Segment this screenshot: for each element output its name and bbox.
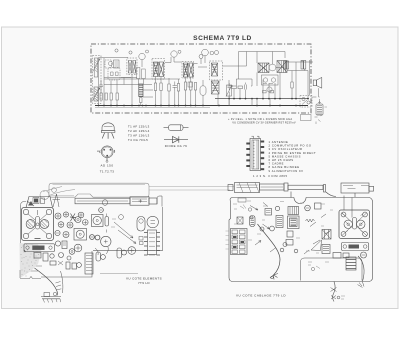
resistor R9 <box>177 84 179 92</box>
CV top housing <box>341 183 369 193</box>
dial plate right <box>342 243 369 251</box>
rect pair top <box>265 209 272 216</box>
battery lead swoop <box>35 268 58 296</box>
connector pins right <box>261 141 265 171</box>
electrolytic round <box>128 247 136 255</box>
chassis notch <box>294 198 306 204</box>
connector screws <box>252 136 260 138</box>
connector pins left <box>246 143 250 168</box>
capsule small <box>96 252 101 261</box>
speaker cutout <box>301 258 363 281</box>
ergot mark <box>97 151 99 153</box>
dark vertical block <box>276 216 283 228</box>
detector cluster <box>228 83 232 91</box>
front apron parts <box>28 266 42 271</box>
output transformer in cutout <box>346 257 356 270</box>
CV label <box>35 238 41 240</box>
tuning capacitor CV body <box>22 208 54 241</box>
crystal capsule <box>105 217 109 227</box>
resistor capsule <box>164 127 169 129</box>
capacitor C1 trimmer <box>99 80 103 94</box>
svg-text:T1.T2.T3: T1.T2.T3 <box>100 169 115 173</box>
chassis outline right/bottom <box>41 207 163 277</box>
dial pointer <box>53 194 59 207</box>
FI2 secondary <box>189 63 193 77</box>
resistor pair R15 R16 <box>284 61 286 69</box>
pointer X star <box>70 214 76 222</box>
resistor R3 <box>110 93 112 100</box>
capacitor C6 <box>173 82 178 92</box>
resistor R2 <box>105 93 107 100</box>
thermistor circle <box>267 87 272 92</box>
svg-text:1 2 3 N. 3 DIM 2865: 1 2 3 N. 3 DIM 2865 <box>253 174 288 178</box>
T1 base mark <box>111 72 119 76</box>
resistor R11 <box>190 82 192 90</box>
electrolytic can <box>101 236 111 246</box>
svg-text:4 PRISE BF ENTRE DIRECT: 4 PRISE BF ENTRE DIRECT <box>269 151 317 155</box>
small circle <box>250 216 253 219</box>
detector transformer secondary <box>212 81 220 94</box>
transistor T1 <box>108 68 120 81</box>
electrolytic C7 <box>200 86 206 96</box>
CV center shaft <box>36 217 40 230</box>
transistor T2 circle <box>171 51 177 57</box>
pointer arrows <box>250 203 330 255</box>
bar coil block <box>130 197 149 205</box>
battery label <box>325 106 328 108</box>
small parts front row <box>34 253 41 259</box>
resistor R10 <box>184 82 186 90</box>
capacitor C4 <box>137 68 140 79</box>
dial lamp trapezoid <box>26 197 53 208</box>
CV feed lines <box>344 196 352 218</box>
svg-text:T3 AF 126/L3: T3 AF 126/L3 <box>128 134 150 138</box>
speaker stipple zone <box>20 243 42 279</box>
dangling wire <box>333 282 336 302</box>
antenna coil L1 dashed box <box>93 56 102 104</box>
antenna coil L1 <box>93 58 100 77</box>
resistor R6 <box>154 83 156 91</box>
dial pulley <box>40 191 49 200</box>
CV corner screws <box>23 209 28 214</box>
resistor R5 <box>140 98 142 103</box>
FI1 primary <box>154 62 159 77</box>
wire <box>111 81 117 106</box>
swoop connector fan <box>270 274 278 280</box>
svg-text:SCHEMA 7T9 LD: SCHEMA 7T9 LD <box>193 35 252 42</box>
resistor caps row <box>55 241 60 246</box>
dial cord <box>43 187 75 196</box>
svg-text:T2 AF 125/L4: T2 AF 125/L4 <box>128 129 150 133</box>
wire <box>196 67 208 106</box>
junction dots <box>98 98 309 107</box>
wire <box>169 78 179 106</box>
transistor T3 circle <box>202 49 209 56</box>
svg-text:T4 OA 70/L5: T4 OA 70/L5 <box>128 138 148 142</box>
ground bus <box>95 105 308 107</box>
battery clip <box>41 297 61 299</box>
transistor T1 block <box>105 60 112 68</box>
bar thin section <box>288 185 323 189</box>
dark X square <box>322 230 331 240</box>
label circle <box>129 51 132 54</box>
wire <box>218 66 247 106</box>
CV diagonals <box>28 214 48 235</box>
svg-text:2 COMMUTATEUR PO GO: 2 COMMUTATEUR PO GO <box>269 144 312 148</box>
wire bus drops <box>229 99 270 106</box>
svg-text:1 ANTENNE: 1 ANTENNE <box>269 140 289 144</box>
front misc line <box>100 273 138 275</box>
wire <box>99 58 132 78</box>
trimmer circles <box>55 213 61 219</box>
bar divider <box>284 183 288 191</box>
resistor zigzag <box>306 219 315 222</box>
IF transformer FI3 dashed <box>210 61 223 80</box>
oscillator coil windings <box>129 61 136 74</box>
comp <box>315 203 322 209</box>
IF transformer can 1 <box>92 215 104 227</box>
resistor R14 <box>238 86 243 89</box>
wire <box>156 57 183 106</box>
CV rotor left <box>26 219 35 228</box>
right ferrite bar <box>260 184 285 190</box>
svg-text:7 CADRE: 7 CADRE <box>269 162 285 166</box>
supply rail <box>215 98 308 100</box>
speaker HP <box>313 77 322 88</box>
FI1 secondary <box>159 62 164 77</box>
battery terminal <box>318 99 321 104</box>
CV shaft <box>353 218 357 230</box>
volume potentiometer P1 <box>227 85 232 96</box>
transistor T4 circle <box>269 64 276 71</box>
resistor R8 <box>168 84 170 91</box>
small circles mid <box>260 227 264 231</box>
CV rotors <box>344 220 352 228</box>
chassis top mark <box>238 198 246 202</box>
bus second line <box>95 106 210 108</box>
output transformer legged <box>148 230 157 255</box>
terminal board <box>231 229 248 255</box>
pointer arrows <box>114 222 136 244</box>
connector legend <box>253 140 316 178</box>
svg-text:8 GAINE BLINDEE: 8 GAINE BLINDEE <box>269 165 300 169</box>
oscillator coil L3 <box>139 84 143 97</box>
hp wire right <box>358 256 364 282</box>
bar tick <box>324 185 326 193</box>
svg-text:+ 9V CELL. 1 NOTE OR L DIVERS: + 9V CELL. 1 NOTE OR L DIVERS MOD AGA <box>228 117 292 121</box>
svg-text:5 MASSE CHASSIS: 5 MASSE CHASSIS <box>269 154 301 158</box>
cable ties <box>56 282 62 291</box>
wire <box>141 90 153 106</box>
resistor R1 <box>100 93 102 100</box>
wire left feed <box>99 58 105 106</box>
bar end cap <box>149 198 157 204</box>
electrolytic capsule <box>137 217 145 232</box>
rects mid <box>287 231 293 237</box>
diode D1 <box>164 139 188 141</box>
battery wire swoop right view <box>258 224 281 275</box>
connector strip body <box>250 139 261 171</box>
bar right cap <box>369 186 374 191</box>
FI2 primary <box>184 63 188 77</box>
pin stubs <box>100 150 115 160</box>
resistor R13 <box>232 86 237 89</box>
transistor legs <box>102 133 114 139</box>
push-pull transistors <box>262 75 279 85</box>
tuning capacitor CV mirror <box>339 210 370 239</box>
wire <box>132 60 144 106</box>
bias network <box>263 91 267 93</box>
dark block lower <box>322 245 330 254</box>
svg-text:AD 150: AD 150 <box>100 164 113 168</box>
transistor T1 circle <box>139 53 145 59</box>
ferrite rod bar <box>75 198 130 204</box>
transistor list <box>128 125 150 143</box>
cutout small bits <box>308 262 329 269</box>
wire speaker to battery <box>310 60 320 97</box>
capacitor C2 block <box>114 60 120 68</box>
electrolytic dark capsule <box>250 216 256 227</box>
wire <box>186 56 206 106</box>
svg-text:VU CONDENSER CV 3V GERNIER RST: VU CONDENSER CV 3V GERNIER RST R237mV <box>232 121 296 125</box>
small bits column <box>139 237 143 241</box>
driver transformer tall <box>85 253 93 274</box>
transistor case top view <box>102 123 114 131</box>
wire top feed <box>239 52 286 80</box>
dark trimmers <box>90 235 95 240</box>
resistor R12 <box>194 83 196 91</box>
wire to speaker <box>287 61 313 99</box>
chassis rear rail <box>49 183 149 197</box>
rail end circle <box>52 188 57 193</box>
svg-text:VU COTE ELEMENTS: VU COTE ELEMENTS <box>126 277 162 281</box>
transistor case bottom view <box>101 146 113 158</box>
capacitor C5 <box>142 69 146 79</box>
svg-text:VU COTE CABLAGE 7T9 LD: VU COTE CABLAGE 7T9 LD <box>236 294 286 298</box>
right chassis outline <box>229 198 373 282</box>
resistor pair R17 R18 <box>301 61 303 70</box>
transistor label circle <box>115 49 118 52</box>
svg-text:DIODE OA 79: DIODE OA 79 <box>165 144 187 148</box>
svg-text:3 CV OSCILLATEUR: 3 CV OSCILLATEUR <box>269 147 303 151</box>
bar coil block <box>235 183 260 193</box>
FI3 winding <box>212 63 218 76</box>
resistor R4 <box>116 93 118 100</box>
wire <box>229 52 252 99</box>
triangle pointer <box>311 240 322 251</box>
tiny ref labels <box>234 201 333 253</box>
pin dots <box>103 149 111 157</box>
small rect pair <box>237 217 243 224</box>
chassis outline top segments <box>25 200 61 202</box>
resistor R19 <box>291 82 293 88</box>
filter circle <box>147 216 158 227</box>
IF transformer FI1 dashed <box>152 59 165 80</box>
wire bits <box>95 247 108 255</box>
IF transformer FI2 dashed <box>182 62 194 79</box>
capacitor C8 <box>245 83 247 92</box>
oscillator block OSC dashed <box>127 58 137 75</box>
diode circle <box>199 55 203 59</box>
IF transformer can 2 <box>74 229 87 241</box>
battery B1 <box>316 104 323 115</box>
bar mount <box>291 192 355 198</box>
svg-text:T1 AF 125/L3: T1 AF 125/L3 <box>128 125 150 129</box>
output transformer TR2 <box>277 61 287 73</box>
battery plug outline <box>301 115 324 125</box>
dial pointer dark <box>28 201 34 206</box>
chassis outline left <box>21 202 25 251</box>
wire <box>251 68 284 99</box>
driver transformer TR1 <box>258 63 269 73</box>
svg-text:6 HP 25 OHMS: 6 HP 25 OHMS <box>269 158 294 162</box>
transformer dark core <box>288 216 300 229</box>
svg-text:7T9 LD: 7T9 LD <box>138 281 150 285</box>
switch dashed box <box>300 96 312 108</box>
CV rotor right <box>40 219 49 228</box>
small parts below <box>333 253 341 259</box>
dial drive plate <box>24 244 55 252</box>
svg-text:9 ALIMENTATION 9V: 9 ALIMENTATION 9V <box>269 169 304 173</box>
wire AGC <box>104 78 180 85</box>
resistor R7 <box>160 83 162 91</box>
schematic dash-dot border <box>91 44 311 113</box>
IC block <box>288 207 299 215</box>
right ferrite bar end cap <box>228 185 233 191</box>
antenna coil L2 <box>93 87 100 101</box>
